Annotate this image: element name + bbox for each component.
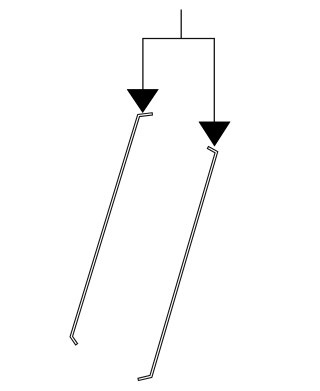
wire right branch drop — [213, 39, 215, 123]
switch lever left (outlined strip) — [70, 113, 152, 345]
wire top lead — [180, 10, 182, 39]
switch lever right (outlined strip) — [138, 146, 218, 380]
wire horizontal branch bus — [142, 38, 215, 40]
wire left branch drop — [142, 39, 144, 91]
arrowhead right actuator — [199, 122, 230, 146]
arrowhead left actuator — [127, 89, 158, 112]
